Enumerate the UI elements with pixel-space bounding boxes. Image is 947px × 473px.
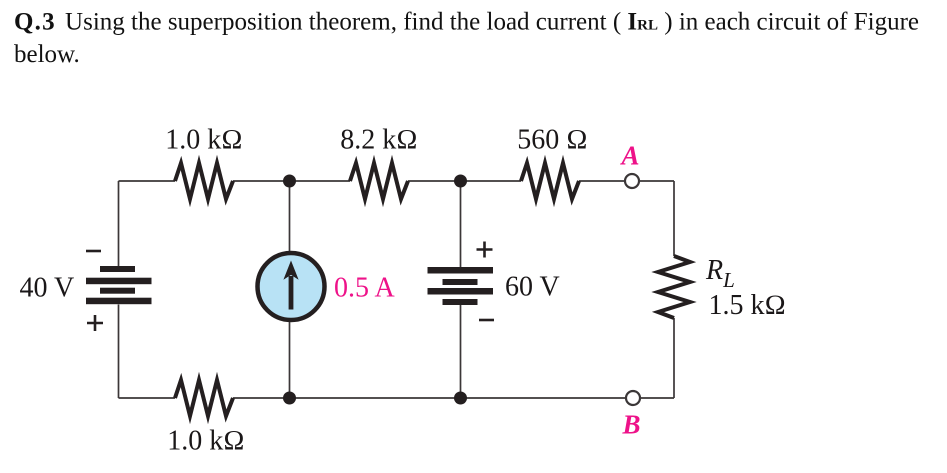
svg-text:1.0 kΩ: 1.0 kΩ [165, 125, 243, 156]
svg-text:1.5 kΩ: 1.5 kΩ [709, 290, 787, 321]
svg-text:40 V: 40 V [20, 273, 75, 304]
svg-text:560 Ω: 560 Ω [517, 125, 588, 156]
svg-text:below.: below. [14, 41, 80, 68]
svg-text:8.2 kΩ: 8.2 kΩ [340, 125, 418, 156]
svg-text:B: B [621, 410, 640, 440]
svg-text:0.5 A: 0.5 A [334, 273, 395, 304]
svg-text:1.0 kΩ: 1.0 kΩ [167, 426, 245, 457]
svg-text:Q.3 Using the superposition th: Q.3 Using the superposition theorem, fin… [14, 9, 919, 36]
svg-text:A: A [619, 141, 639, 171]
svg-text:60 V: 60 V [505, 272, 560, 303]
svg-text:RL: RL [705, 255, 735, 292]
